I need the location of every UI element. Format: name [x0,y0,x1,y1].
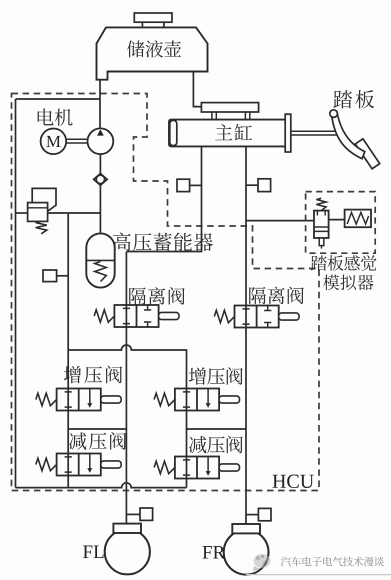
increase valve FL (增压阀) [57,389,101,411]
master cylinder flange [285,114,291,152]
wire return branch to left [16,98,101,100]
MC pressure sensor right [258,179,271,192]
wire isolation valve 1 to FL (crosses buses) [125,327,127,524]
label 储液壶 [127,40,181,57]
HP bus wire with hop over FL line [68,345,186,388]
pedal pivot [330,110,338,118]
label FL [83,546,104,558]
isolation valve 2 (隔离阀) [235,306,279,328]
simulator cylinder [314,211,329,238]
wire junction to accumulator [99,213,101,233]
relief valve spring [36,221,47,233]
simulator bottom stub [319,238,324,246]
wire to isolation valve 1 [125,252,127,306]
increase valve FR (增压阀) [175,389,219,411]
FL decrease feed [67,429,69,454]
return bus wire with hop over FL line [16,483,187,488]
wire reservoir to pump [99,80,101,129]
FR link wire [187,410,247,429]
decrease valve FR (减压阀) [175,457,219,479]
FL pressure sensor [140,508,153,520]
watermark text [281,557,384,567]
FR decrease feed [186,429,188,457]
FL link wire [68,410,126,429]
wheel cylinder FR [224,530,269,575]
accumulator 高压蓄能器 [86,233,114,287]
decrease valve FL to return bus [67,475,69,488]
label 隔离阀 left [129,287,185,305]
master cylinder piston left [170,120,177,145]
pump flow arrow [97,129,104,135]
relief valve front box [28,203,48,222]
wire to pedal simulator [246,220,314,222]
wire reservoir to master cylinder [193,72,201,107]
isolation valve 1 (隔离阀) [114,305,158,327]
wire MC left port down [126,146,201,251]
reservoir cap neck [142,22,164,27]
motor M [41,129,67,155]
label 隔离阀 right [249,287,304,305]
wire relief valve to HP junction [48,212,101,214]
MC pressure sensor left [177,179,190,191]
pushrod [291,131,338,135]
label 电机 [38,108,73,125]
pump [88,128,114,154]
wire MC right port down [245,146,247,305]
label 模拟器 [323,275,374,291]
motor shaft [66,139,87,143]
FR pressure sensor [258,508,271,520]
decrease valve FR to return bus [186,478,188,488]
wire return to relief valve [16,212,28,214]
HP feed line down [67,213,69,389]
label 增压阀 left [64,366,122,384]
label FR [203,546,226,558]
reservoir cap [134,13,172,22]
pressure sensor (HP line) [43,270,57,282]
HCU dashed boundary box [12,94,320,491]
label 增压阀 right [189,367,243,385]
watermark rule [246,574,391,576]
wire pump to check valve [99,154,101,173]
label 主缸 [215,124,252,140]
wheel cylinder FL [105,529,150,574]
simulator link to spring box [329,219,345,221]
label 踏板感觉 [311,255,377,271]
decrease valve FL (减压阀) [57,454,101,476]
simulator spring top [316,198,326,210]
check valve [94,174,108,186]
label 高压蓄能器 [113,233,213,252]
pedal pad 踏板 [355,139,379,169]
watermark icon [253,554,271,571]
master cylinder cap [201,103,258,112]
reservoir body (储液壶) [97,27,208,79]
wire check valve to HP junction [99,185,101,213]
label 减压阀 left [69,432,126,450]
relief valve back box [32,188,56,210]
label HCU [273,475,314,488]
wire return line left side [15,99,17,488]
label 减压阀 right [189,436,243,454]
master cylinder cap stubs [212,112,250,120]
wire isolation valve 2 to FR [245,328,247,525]
pedal feel simulator dashed box [306,192,376,254]
simulator spring box [345,210,371,228]
master cylinder body 主缸 [169,120,287,147]
pedal arm [332,114,365,159]
